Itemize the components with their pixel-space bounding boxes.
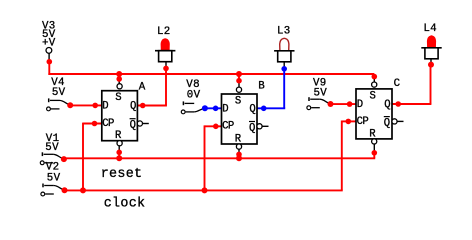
svg-text:D: D bbox=[102, 101, 108, 113]
svg-text:L2: L2 bbox=[157, 26, 171, 38]
svg-text:5V: 5V bbox=[52, 87, 66, 99]
svg-text:S: S bbox=[235, 96, 241, 108]
svg-text:CP: CP bbox=[222, 121, 234, 133]
svg-text:D: D bbox=[222, 103, 228, 115]
svg-text:5V: 5V bbox=[314, 87, 328, 99]
svg-text:+V: +V bbox=[42, 37, 56, 49]
svg-text:S: S bbox=[115, 92, 121, 104]
svg-text:Q: Q bbox=[384, 99, 390, 111]
svg-text:S: S bbox=[370, 90, 376, 102]
svg-text:Q: Q bbox=[384, 118, 390, 130]
svg-text:CP: CP bbox=[357, 116, 369, 128]
svg-text:A: A bbox=[139, 81, 146, 93]
svg-text:Q: Q bbox=[249, 123, 255, 135]
svg-text:Q: Q bbox=[130, 120, 136, 132]
svg-text:L3: L3 bbox=[277, 25, 291, 37]
svg-text:B: B bbox=[258, 81, 265, 93]
svg-text:C: C bbox=[394, 78, 401, 90]
svg-text:CP: CP bbox=[102, 118, 114, 130]
svg-text:reset: reset bbox=[101, 167, 143, 182]
svg-text:D: D bbox=[357, 99, 363, 111]
svg-text:L4: L4 bbox=[423, 23, 437, 35]
svg-text:5V: 5V bbox=[45, 142, 59, 154]
svg-text:Q: Q bbox=[130, 101, 136, 113]
svg-text:0V: 0V bbox=[187, 89, 201, 101]
svg-text:clock: clock bbox=[104, 196, 146, 211]
svg-text:5V: 5V bbox=[47, 172, 61, 184]
svg-text:Q: Q bbox=[249, 103, 255, 115]
